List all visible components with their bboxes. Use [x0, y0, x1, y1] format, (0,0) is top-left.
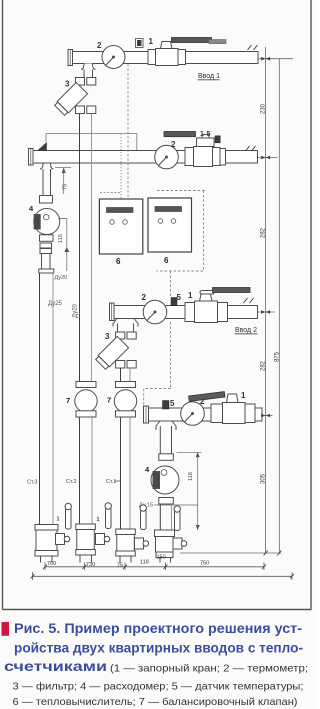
riser D	[160, 504, 171, 530]
right dimension vertical x265.6	[180, 47, 293, 553]
thermometer T3	[143, 300, 167, 324]
flow meter FM1 (4, input 1)	[34, 209, 60, 254]
svg-text:1: 1	[57, 517, 60, 523]
column frame left rule	[2, 0, 4, 610]
temp sensor S2 on V2	[215, 136, 220, 143]
svg-text:1: 1	[97, 517, 100, 523]
svg-text:6: 6	[116, 257, 121, 266]
svg-text:ройства двух квартирных вводов: ройства двух квартирных вводов с тепло-	[14, 640, 303, 656]
column frame right rule	[310, 0, 312, 610]
riser A flange	[40, 196, 53, 204]
svg-text:700: 700	[47, 561, 56, 567]
heat calculator U1 (6)	[99, 199, 142, 254]
dimension 75 between risers	[55, 168, 71, 195]
svg-text:(1 — запорный кран; 2 — термом: (1 — запорный кран; 2 — термометр;	[110, 663, 308, 674]
thermometer T4	[181, 402, 205, 426]
svg-text:230: 230	[261, 103, 267, 114]
house tee down from P4	[156, 421, 176, 460]
svg-text:5: 5	[177, 293, 182, 302]
balancing valve BV2 (7) on riser C	[114, 382, 136, 418]
local dimension 118 near riser D	[154, 452, 202, 530]
svg-text:Рис. 5. Пример проектного реше: Рис. 5. Пример проектного решения уст-	[14, 621, 302, 637]
svg-text:2: 2	[142, 293, 147, 302]
tee branch down from P1	[76, 64, 96, 86]
sensor cable loop around U2	[144, 191, 205, 407]
svg-text:счетчиками: счетчиками	[4, 659, 107, 675]
filter F1 (45deg, input 1)	[54, 82, 96, 116]
pipe P1 left end flange	[68, 50, 73, 66]
pipe P2 return input 1	[33, 151, 258, 164]
svg-text:6 — тепловычислитель; 7 — бала: 6 — тепловычислитель; 7 — балансировочны…	[13, 696, 298, 708]
drain tap on P2 left end	[38, 143, 47, 151]
union pair under P1 tee	[76, 78, 85, 86]
pipe P4 return input 2	[149, 408, 263, 421]
bottom shut-off valve G4	[155, 506, 187, 563]
svg-text:875: 875	[274, 351, 280, 362]
svg-text:5: 5	[207, 131, 211, 138]
svg-text:3 — фильтр; 4 — расходомер; 5: 3 — фильтр; 4 — расходомер; 5 — датчик т…	[13, 681, 304, 693]
svg-text:3: 3	[65, 80, 70, 89]
svg-text:1: 1	[149, 37, 154, 46]
valve V4 lever handle	[189, 392, 225, 402]
svg-text:Ст.2: Ст.2	[66, 479, 76, 485]
caption marker	[2, 622, 10, 636]
dimension arrows on verticals	[261, 57, 270, 417]
bottom shut-off valve G2	[76, 503, 112, 563]
flow meter FM2 (4, input 2)	[151, 466, 179, 504]
ball valve V1 on P1	[148, 38, 226, 66]
svg-text:4: 4	[145, 465, 150, 474]
bottom dimension chain line 1	[43, 563, 266, 571]
svg-text:Ду25: Ду25	[48, 301, 63, 307]
svg-text:2: 2	[97, 41, 102, 50]
tee branch down from P2	[40, 163, 54, 203]
bottom shut-off valve G1	[35, 503, 71, 562]
svg-text:5: 5	[170, 399, 175, 408]
pipe P3 left end flange	[110, 303, 115, 321]
figure bottom rule	[3, 609, 312, 611]
svg-text:Ввод 1: Ввод 1	[198, 73, 220, 80]
svg-text:Ст.3: Ст.3	[27, 480, 37, 486]
svg-text:Ввод 2: Ввод 2	[235, 327, 257, 334]
svg-text:118: 118	[140, 560, 149, 566]
heat calculator U2 (6)	[148, 198, 192, 252]
pipe P2 left end flange	[29, 149, 34, 166]
valve V2 lever handle	[164, 132, 196, 137]
svg-text:7: 7	[107, 396, 111, 405]
pipe P1 supply input 1	[72, 52, 258, 64]
svg-text:2: 2	[171, 140, 176, 149]
filter F2 (45deg, input 2)	[95, 336, 136, 370]
svg-text:75: 75	[63, 184, 69, 190]
svg-text:150: 150	[157, 555, 166, 561]
svg-text:Ду20: Ду20	[73, 303, 79, 318]
svg-text:282: 282	[261, 227, 267, 238]
bottom shut-off valve G3	[116, 505, 149, 563]
bottom dimension base line 2	[31, 572, 295, 580]
svg-text:7: 7	[66, 396, 70, 405]
svg-text:115: 115	[58, 234, 64, 243]
svg-text:305: 305	[261, 473, 267, 484]
svg-text:730: 730	[86, 562, 95, 568]
temp sensor S1 on P1	[136, 39, 144, 48]
svg-text:3: 3	[105, 332, 110, 341]
ball valve V4 on P4	[189, 392, 255, 424]
balancing valve BV1 (7) on riser B	[75, 382, 97, 418]
ball valve V2 on P2	[164, 132, 226, 167]
svg-text:6: 6	[164, 256, 169, 265]
svg-text:1: 1	[200, 131, 204, 138]
temp sensor S4 on P4	[163, 401, 170, 410]
house tee down from P3	[113, 319, 138, 340]
FM1 flange below	[40, 235, 54, 242]
svg-text:750: 750	[200, 561, 209, 567]
svg-text:75: 75	[117, 563, 123, 569]
cable FM1 to U1	[58, 218, 67, 220]
sensor cable S1 to U1	[100, 64, 128, 199]
riser A reduction flange	[39, 269, 54, 273]
svg-text:Ст.1: Ст.1	[106, 479, 116, 485]
tap cable to heat meter	[46, 134, 137, 151]
svg-text:1: 1	[241, 391, 246, 400]
pipe P3 supply input 2	[114, 306, 258, 319]
svg-text:118: 118	[188, 472, 194, 481]
svg-text:Ду20: Ду20	[55, 275, 68, 281]
dimension labels line 1	[47, 555, 209, 569]
riser A lower run	[42, 254, 51, 270]
valve V1 lever handle	[172, 38, 212, 43]
svg-text:4: 4	[29, 204, 34, 213]
svg-text:282: 282	[261, 360, 267, 371]
svg-text:1: 1	[188, 291, 193, 300]
union pair under FM1	[40, 243, 52, 248]
thermometer T2	[155, 145, 179, 169]
valve V3 lever handle	[213, 288, 251, 293]
riser B (from F1 down)	[80, 114, 93, 525]
pipe P4 left end flange	[144, 406, 149, 423]
temp sensor S3 on P3	[171, 298, 177, 306]
thermometer T1	[102, 46, 125, 69]
riser C	[121, 368, 131, 529]
dimension 115 (FM1 drop)	[64, 219, 69, 271]
union pair under F1	[76, 106, 85, 114]
ball valve V3 on P3	[185, 288, 250, 323]
